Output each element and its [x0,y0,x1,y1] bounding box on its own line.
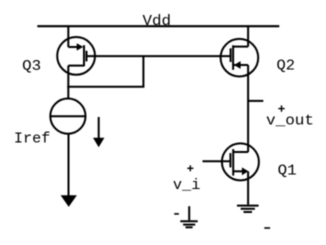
label + (v_i polarity) [187,165,193,171]
arrow Iref current direction [93,117,104,147]
current source Iref [50,99,85,134]
wire gate line Q3 to Q2 [87,55,231,57]
svg-text:Q1: Q1 [278,163,297,180]
transistor Q2 [221,39,259,77]
svg-text:Q2: Q2 [277,57,296,74]
wire Vdd rail [37,25,279,27]
wire Vdd rail to Q2 source [247,26,249,46]
label - (v_out polarity) [264,227,270,229]
wire Q1 source to ground [247,171,249,204]
svg-text:Q3: Q3 [22,58,41,75]
arrow left branch current out [61,195,77,207]
svg-text:Iref: Iref [14,131,51,148]
node v_out terminal tick [248,100,263,102]
ground (Q1 source) [237,206,259,212]
wire Q2 drain to Q1 drain (v_out node) [247,65,249,152]
wire Q3 drain to Iref [67,66,69,100]
svg-text:Vdd: Vdd [143,13,172,30]
wire Iref to bottom arrow [68,133,70,196]
wire gate feedback vertical [142,56,144,87]
svg-text:v_i: v_i [173,177,201,194]
svg-text:v_out: v_out [266,113,314,130]
wire Vdd rail to Q3 source [67,26,69,47]
wire gate feedback horizontal [67,86,144,88]
label + (v_out polarity) [278,105,284,111]
label - (v_i polarity) [174,213,179,215]
transistor Q3 [57,37,95,75]
ground (v_i reference) [180,206,197,227]
wire v_i to Q1 gate [203,160,231,162]
transistor Q1 [222,143,259,180]
